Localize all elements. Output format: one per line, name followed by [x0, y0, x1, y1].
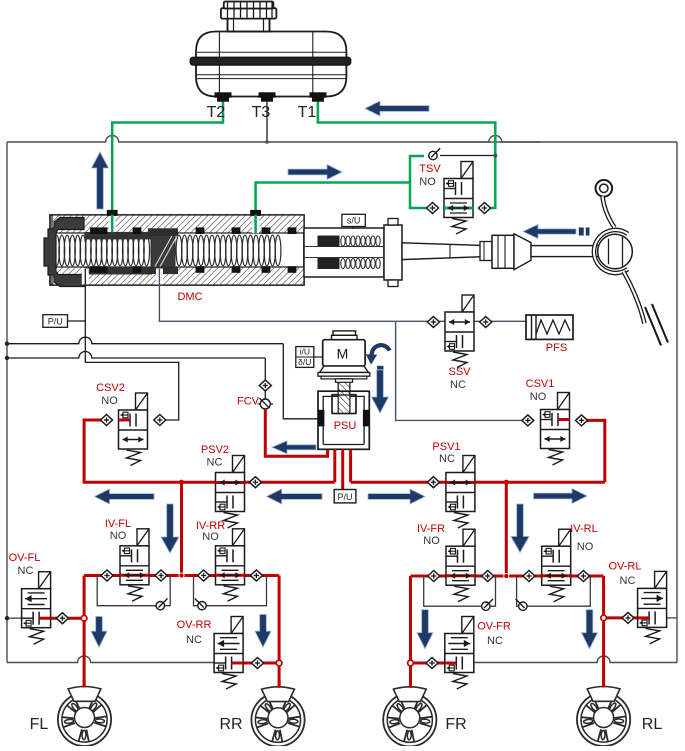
svg-text:NC: NC — [620, 575, 636, 587]
wire red CSV2 to main line — [84, 420, 335, 482]
master cylinder port 1 channel — [109, 216, 116, 232]
svg-text:T1: T1 — [298, 104, 317, 121]
valve IV-FL — [137, 529, 149, 546]
svg-text:i/U: i/U — [300, 347, 310, 357]
wheel brake FR — [383, 693, 436, 746]
master cylinder port 2 channel — [252, 216, 259, 233]
check valve IV-RL bypass — [519, 602, 527, 610]
svg-text:DMC: DMC — [177, 291, 202, 303]
valve PSV1 — [463, 456, 475, 473]
wire gray OV-FL return — [7, 617, 22, 619]
arrow flow right branch down — [511, 504, 529, 553]
check valve FCV diamond — [259, 380, 271, 391]
sensor i/U d/U box — [296, 347, 314, 368]
wire red RR drop — [278, 576, 281, 690]
arrow flow up left — [92, 152, 109, 209]
reservoir clamp band — [190, 57, 351, 65]
svg-text:PSV2: PSV2 — [201, 444, 229, 456]
svg-text:PFS: PFS — [546, 342, 567, 354]
wire red FCV to PSU — [265, 409, 327, 456]
svg-text:OV-RR: OV-RR — [177, 619, 212, 631]
wire red OV-FR link — [411, 662, 445, 665]
wire red RR caliper stub — [278, 680, 281, 688]
svg-text:NO: NO — [110, 530, 127, 542]
pedal pad — [649, 306, 665, 345]
wire red CSV1 loop — [587, 420, 605, 482]
node red junction OV-RR — [276, 660, 282, 666]
valve CSV2 — [136, 393, 148, 410]
svg-text:P/U: P/U — [48, 316, 63, 326]
svg-text:NO: NO — [530, 391, 547, 403]
master cylinder port nubs — [107, 210, 117, 215]
arrow flow bottom center-right — [368, 489, 425, 504]
svg-text:FR: FR — [445, 716, 466, 733]
pushrod shaft — [531, 246, 599, 257]
node OV-FL return junction — [5, 616, 9, 620]
motor cap — [333, 331, 356, 335]
svg-text:NC: NC — [487, 635, 503, 647]
pushrod locknut — [480, 242, 492, 261]
arrow flow pushrod — [523, 225, 576, 239]
svg-text:PSV1: PSV1 — [432, 441, 460, 453]
wire TSV bypass link — [440, 155, 495, 157]
master cylinder top wall hatch — [52, 215, 304, 233]
svg-text:CSV2: CSV2 — [96, 382, 125, 394]
pedal lower arm — [624, 272, 645, 324]
wire green T1 to TSV — [318, 98, 495, 208]
master cylinder primary spring — [54, 235, 60, 266]
arrow flow bottom center-left — [267, 489, 322, 504]
svg-text:RL: RL — [642, 716, 663, 733]
wire red PSU port2 — [333, 449, 336, 482]
master cylinder body outer — [50, 215, 304, 285]
node red junction OV-FR — [408, 660, 414, 666]
wire red RL caliper stub — [602, 680, 605, 688]
svg-text:NC: NC — [439, 453, 455, 465]
sensor P/U pressure supply — [334, 490, 356, 503]
arrow flow RL down — [582, 610, 598, 649]
master cylinder left end cap — [44, 218, 84, 287]
svg-text:IV-RL: IV-RL — [570, 523, 598, 535]
svg-text:s/U: s/U — [347, 216, 361, 226]
arrow flow middle right — [288, 165, 342, 180]
master cylinder seals — [91, 228, 99, 234]
wire T3 to return line — [266, 98, 268, 142]
check valve IV-FL bypass — [156, 602, 164, 610]
wire red OV-RR link — [243, 662, 279, 665]
svg-text:NO: NO — [419, 176, 436, 188]
node red junction IV-FR line — [504, 573, 509, 578]
master cylinder rod guide section — [304, 228, 384, 277]
valve IV-FR — [463, 529, 475, 546]
valve IV-FR bypass loop — [424, 576, 496, 606]
wheel brake FL — [58, 693, 111, 746]
svg-text:NC: NC — [18, 565, 34, 577]
svg-text:FL: FL — [30, 716, 49, 733]
wheel brake RL — [577, 693, 630, 746]
svg-text:NO: NO — [577, 541, 594, 553]
reservoir seam lines — [218, 32, 220, 96]
wire right border return line — [676, 142, 678, 663]
reservoir body — [196, 32, 346, 97]
arrow flow bottom left — [95, 489, 155, 504]
svg-text:OV-FL: OV-FL — [9, 552, 41, 564]
arrow flow FR down — [417, 610, 433, 649]
wire red OV-FL link — [51, 617, 85, 620]
wire green master cylinder port 2 branch — [256, 183, 410, 231]
valve OV-RR — [231, 617, 243, 634]
node red junction OV-RL — [601, 615, 607, 621]
wire red FR caliper stub — [409, 680, 412, 688]
svg-text:RR: RR — [219, 716, 242, 733]
valve SSV — [462, 295, 474, 312]
wire green TSV to master cylinder port 2 — [410, 156, 432, 208]
PSU ballscrew inside — [338, 392, 350, 414]
valve IV-RR — [233, 529, 245, 546]
wire red OV-RL link — [604, 616, 638, 619]
damper PFS — [526, 315, 573, 339]
wire red PSU port4 — [349, 449, 352, 482]
svg-text:NO: NO — [101, 395, 118, 407]
sensor P/U master cylinder — [43, 315, 68, 328]
check valve IV-RR bypass — [198, 602, 206, 610]
svg-text:NO: NO — [202, 531, 219, 543]
svg-text:NC: NC — [207, 457, 223, 469]
svg-text:δ/U: δ/U — [298, 357, 311, 367]
svg-text:SSV: SSV — [448, 366, 471, 378]
wire gray OV-RL return — [667, 617, 677, 619]
pedal ball socket — [598, 234, 633, 269]
arrow flow left branch down — [161, 504, 179, 553]
arrow motor rotation — [372, 345, 390, 358]
valve IV-RR bypass loop — [194, 576, 267, 606]
valve PSV2 — [233, 456, 245, 473]
pushrod hex adjuster — [492, 235, 514, 268]
wire return branch B to FCV — [7, 352, 265, 359]
wire return branch A to PSU suction — [7, 337, 283, 344]
svg-text:NC: NC — [450, 379, 466, 391]
node return branch A junction — [5, 342, 9, 346]
node red junction right branch — [504, 480, 509, 485]
wire red RL drop — [602, 576, 605, 689]
svg-text:CSV1: CSV1 — [526, 378, 555, 390]
pedal upper arm — [603, 196, 615, 227]
valve IV-RL — [559, 529, 571, 546]
wire bottom-left return line — [7, 656, 214, 663]
wire master cylinder drain to CSV2 — [85, 285, 178, 420]
check valve FCV poppet — [264, 391, 266, 399]
pushrod taper — [402, 243, 486, 260]
check valve TSV bypass — [429, 151, 437, 159]
svg-text:IV-FL: IV-FL — [105, 518, 131, 530]
wire red branch left down — [180, 482, 183, 575]
motor M body — [323, 340, 365, 366]
svg-text:T2: T2 — [207, 104, 226, 121]
svg-text:FCV: FCV — [237, 396, 260, 408]
master cylinder rod flange — [384, 225, 402, 280]
pedal clevis arc — [594, 230, 628, 273]
valve OV-RL — [655, 571, 667, 588]
wire red FL/RR circuit — [84, 574, 279, 577]
svg-text:IV-FR: IV-FR — [417, 523, 445, 535]
sensor s/U box — [342, 214, 365, 226]
wheel brake RR — [251, 693, 304, 746]
pedal pivot eye — [596, 180, 613, 197]
arrow flow top right — [365, 101, 429, 116]
valve IV-RL bypass loop — [517, 576, 591, 606]
valve CSV1 — [558, 393, 570, 410]
svg-text:P/U: P/U — [337, 492, 352, 502]
wire SSV branch to CSV1 — [396, 321, 522, 420]
node T3 junction — [265, 140, 269, 144]
wire green T2 to master cylinder port 1 — [112, 98, 223, 230]
master cylinder sensor channel — [156, 269, 163, 285]
master cylinder center piston — [151, 231, 175, 273]
reservoir neck — [228, 18, 270, 31]
reservoir port T3 — [259, 93, 275, 97]
arrow flow RR down — [255, 615, 271, 648]
reservoir cap — [221, 8, 277, 18]
node return branch B junction — [5, 356, 9, 360]
wire red branch right down — [505, 482, 508, 576]
svg-text:OV-FR: OV-FR — [477, 621, 511, 633]
valve IV-FL bypass loop — [97, 576, 170, 606]
wire master cylinder to SSV — [159, 285, 526, 321]
PSU cylinder — [318, 391, 369, 449]
motor skirt — [320, 366, 369, 372]
svg-text:TSV: TSV — [419, 163, 441, 175]
svg-text:PSU: PSU — [334, 420, 357, 432]
wire bottom-right return line — [474, 656, 677, 663]
master cylinder secondary spring — [176, 235, 182, 266]
node TSV bypass junction — [493, 154, 497, 158]
svg-text:T3: T3 — [252, 104, 271, 121]
reservoir port T1 — [310, 93, 326, 97]
valve OV-FR — [462, 617, 474, 634]
arrow flow FL down — [91, 617, 107, 648]
arrow flow bottom right — [534, 489, 587, 504]
wire red FR drop — [409, 576, 412, 689]
pushrod collar — [514, 234, 531, 270]
node red junction left branch — [179, 480, 184, 485]
wire top border return line — [7, 136, 677, 142]
wire red PSU port3 to sensor — [341, 449, 344, 489]
wire red FL drop — [83, 576, 86, 690]
master cylinder primary piston cup — [85, 232, 152, 239]
arrow flow PSU down — [372, 370, 389, 413]
valve OV-FL — [39, 572, 51, 589]
wire red main line right — [351, 481, 605, 484]
svg-text:M: M — [337, 346, 349, 362]
node red junction OV-FL — [81, 615, 87, 621]
master cylinder drain channel — [82, 269, 89, 285]
svg-text:NO: NO — [423, 535, 440, 547]
master cylinder bottom wall hatch — [52, 267, 304, 285]
svg-text:NC: NC — [186, 634, 202, 646]
wire red FR/RL circuit — [411, 575, 604, 578]
reservoir port T2 — [215, 93, 231, 97]
wire red FL caliper stub — [83, 680, 86, 688]
node red junction IV-FL line — [179, 573, 184, 578]
arrow flow FCV left — [272, 441, 316, 454]
PSU ballscrew — [338, 379, 350, 414]
svg-text:OV-RL: OV-RL — [608, 561, 641, 573]
wire left border return line — [6, 142, 8, 663]
check valve IV-FR bypass — [482, 602, 490, 610]
valve TSV — [461, 162, 473, 179]
